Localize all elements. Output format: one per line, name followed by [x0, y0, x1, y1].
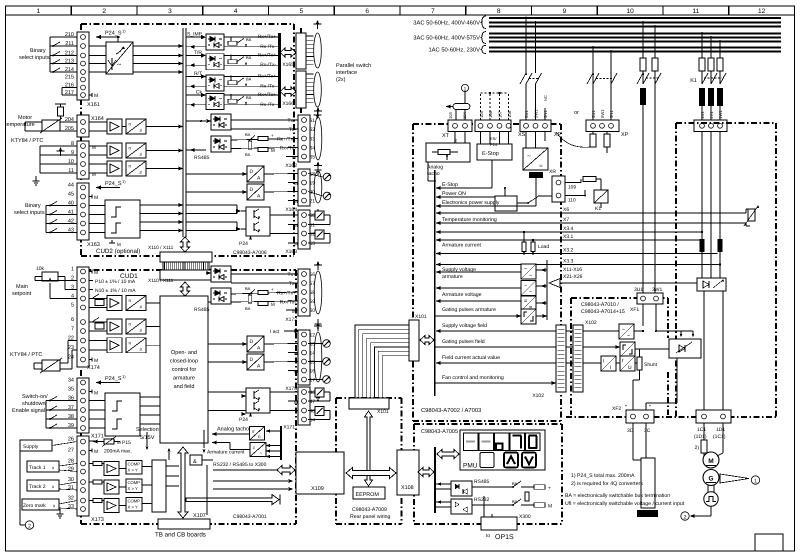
svg-text:M: M: [94, 449, 98, 455]
svg-text:106: 106: [488, 110, 493, 118]
svg-text:104: 104: [462, 112, 467, 119]
svg-text:temperature: temperature: [5, 122, 35, 128]
svg-text:Binary: Binary: [30, 48, 46, 54]
svg-text:U: U: [628, 365, 632, 371]
svg-text:1W1: 1W1: [718, 110, 723, 119]
svg-text:32: 32: [68, 496, 74, 502]
svg-text:5W1: 5W1: [534, 109, 539, 118]
svg-text:X172: X172: [285, 317, 297, 323]
svg-text:BA: BA: [245, 306, 251, 311]
svg-text:Electronics power supply: Electronics power supply: [442, 200, 500, 206]
svg-text:6: 6: [71, 317, 74, 323]
svg-text:2: 2: [102, 8, 106, 15]
svg-text:1AC 50-60Hz, 230V: 1AC 50-60Hz, 230V: [428, 47, 480, 54]
svg-text:48: 48: [310, 408, 316, 414]
svg-text:ES/: ES/: [490, 136, 497, 141]
svg-text:Tx-: Tx-: [289, 281, 297, 287]
svg-text:5/15V: 5/15V: [140, 435, 155, 441]
svg-text:Rx+/Tx+: Rx+/Tx+: [258, 74, 276, 80]
svg-text:C98043-A7014+15: C98043-A7014+15: [581, 309, 625, 315]
svg-text:X108: X108: [401, 485, 414, 491]
svg-text:X > Y: X > Y: [128, 505, 138, 510]
svg-text:XF1: XF1: [630, 307, 639, 313]
svg-text:M: M: [294, 351, 298, 356]
svg-text:P24_S: P24_S: [105, 376, 122, 382]
svg-text:Load: Load: [538, 244, 549, 250]
svg-text:(1C1): (1C1): [713, 434, 726, 440]
svg-text:X110 / X111: X110 / X111: [148, 245, 174, 251]
svg-text:interface: interface: [336, 70, 357, 76]
svg-text:›: ›: [52, 466, 54, 472]
svg-text:Power ON: Power ON: [442, 191, 466, 197]
svg-text:X101: X101: [415, 314, 427, 320]
svg-text:X6: X6: [563, 207, 569, 213]
svg-text:Main: Main: [16, 284, 28, 290]
svg-text:BA: BA: [246, 37, 252, 42]
svg-text:or: or: [574, 110, 579, 116]
svg-text:Tx+: Tx+: [288, 118, 297, 124]
svg-text:X110 / X111: X110 / X111: [148, 278, 174, 284]
svg-text:P10 ± 1% / 10 mA: P10 ± 1% / 10 mA: [95, 279, 136, 285]
svg-text:X165: X165: [282, 62, 294, 68]
svg-text:35: 35: [68, 387, 74, 393]
svg-text:E-Stop: E-Stop: [442, 182, 458, 188]
svg-text:Rx+/Tx+: Rx+/Tx+: [277, 137, 296, 143]
svg-text:XP: XP: [621, 132, 629, 138]
svg-text:*: *: [649, 404, 651, 410]
svg-text:4: 4: [234, 8, 238, 15]
svg-text:Rx+/Tx+: Rx+/Tx+: [258, 34, 276, 40]
svg-text:C98043-A7006: C98043-A7006: [233, 250, 267, 256]
svg-text:XR: XR: [549, 169, 556, 175]
svg-text:53: 53: [310, 241, 316, 247]
svg-text:select inputs: select inputs: [19, 55, 50, 61]
svg-text:1C1: 1C1: [697, 427, 706, 433]
svg-text:I: I: [610, 365, 611, 371]
svg-text:2: 2: [684, 515, 687, 521]
svg-text:BA: BA: [246, 55, 252, 60]
svg-text:3W1: 3W1: [652, 287, 663, 293]
svg-text:COMP: COMP: [128, 499, 141, 504]
svg-text:107: 107: [498, 110, 503, 118]
svg-text:61: 61: [310, 118, 316, 124]
svg-text:1U1: 1U1: [700, 111, 705, 119]
svg-text:BA = electronically switchable: BA = electronically switchable bus termi…: [565, 493, 670, 499]
svg-text:BA: BA: [246, 76, 252, 81]
svg-text:Fan control and monitoring: Fan control and monitoring: [442, 375, 504, 381]
svg-text:X171: X171: [283, 425, 295, 431]
svg-text:Rx-/Tx-: Rx-/Tx-: [280, 146, 297, 152]
svg-text:(2x): (2x): [336, 77, 346, 83]
svg-text:X171: X171: [91, 434, 104, 440]
svg-text:103: 103: [448, 112, 453, 119]
svg-text:Gating pulses field: Gating pulses field: [442, 339, 485, 345]
svg-text:50: 50: [310, 213, 316, 219]
svg-text:X102: X102: [585, 320, 597, 326]
svg-text:X3.3: X3.3: [563, 259, 574, 265]
svg-text:X102: X102: [532, 393, 544, 399]
svg-text:M: M: [271, 302, 275, 307]
svg-text:+: +: [271, 287, 274, 292]
svg-text:X7: X7: [563, 217, 569, 223]
svg-text:3C: 3C: [644, 428, 651, 434]
svg-text:Rx-/Tx-: Rx-/Tx-: [260, 44, 276, 50]
svg-text:to: to: [486, 533, 490, 539]
svg-text:Tx+: Tx+: [288, 272, 297, 278]
svg-text:Armature voltage: Armature voltage: [442, 292, 482, 298]
svg-text:KTY84 / PTC: KTY84 / PTC: [10, 352, 42, 358]
svg-text:closed-loop: closed-loop: [170, 359, 198, 365]
svg-text:3: 3: [168, 8, 172, 15]
svg-text:≡: ≡: [253, 445, 256, 450]
svg-text:1: 1: [71, 267, 74, 273]
svg-text:12: 12: [310, 332, 316, 338]
svg-text:C98043-A7009: C98043-A7009: [352, 507, 387, 513]
svg-text:~: ~: [524, 267, 527, 273]
svg-text:17: 17: [310, 377, 316, 383]
svg-text:~: ~: [260, 451, 263, 456]
svg-text:armature: armature: [442, 274, 463, 280]
svg-text:1V1: 1V1: [709, 111, 714, 119]
svg-text:3AC 50-60Hz, 400V-460V: 3AC 50-60Hz, 400V-460V: [413, 19, 480, 26]
svg-text:TB and CB boards: TB and CB boards: [155, 532, 206, 539]
svg-text:M: M: [292, 155, 296, 160]
svg-text:RS485: RS485: [194, 307, 210, 313]
svg-text:65: 65: [310, 154, 316, 160]
svg-text:27: 27: [68, 448, 74, 454]
svg-text:X107: X107: [193, 513, 206, 519]
svg-text:Rx-/Tx-: Rx-/Tx-: [260, 62, 276, 68]
svg-text:46: 46: [310, 390, 316, 396]
svg-text:1: 1: [37, 8, 41, 15]
svg-text:BA: BA: [246, 95, 252, 100]
svg-text:›: ›: [52, 485, 54, 491]
svg-text:60: 60: [310, 308, 316, 314]
svg-text:tacho: tacho: [427, 171, 440, 177]
svg-text:K1: K1: [595, 206, 601, 212]
svg-text:Enable signal: Enable signal: [12, 408, 45, 414]
svg-text:X300: X300: [519, 514, 531, 520]
svg-text:Gating pulses armature: Gating pulses armature: [442, 307, 496, 313]
svg-text:Supply voltage field: Supply voltage field: [442, 323, 487, 329]
svg-text:Rx-/Tx-: Rx-/Tx-: [260, 83, 276, 89]
svg-text:N10 ± 1% / 10 mA: N10 ± 1% / 10 mA: [95, 288, 136, 294]
svg-text:10k: 10k: [36, 266, 45, 272]
svg-text:KTY84 / PTC: KTY84 / PTC: [11, 138, 43, 144]
svg-text:X21-X26: X21-X26: [563, 274, 583, 280]
svg-text:X175: X175: [285, 386, 297, 392]
svg-text:Track 2: Track 2: [29, 484, 46, 490]
svg-text:M: M: [294, 181, 298, 186]
svg-text:RS232 / RS485 to X300: RS232 / RS485 to X300: [213, 462, 267, 468]
svg-text:Parallel switch: Parallel switch: [336, 63, 371, 69]
svg-text:24: 24: [68, 355, 74, 361]
svg-text:XT: XT: [442, 133, 450, 139]
svg-text:X164: X164: [285, 207, 297, 213]
svg-text:X101: X101: [377, 409, 389, 415]
svg-text:X163: X163: [87, 242, 100, 248]
svg-text:BA: BA: [245, 132, 251, 137]
svg-text:X164: X164: [91, 116, 104, 122]
svg-text:29: 29: [68, 467, 74, 473]
svg-text:X3.2: X3.2: [563, 248, 574, 254]
svg-text:+: +: [271, 133, 274, 138]
svg-text:~: ~: [527, 153, 531, 160]
svg-text:1: 1: [754, 479, 757, 485]
svg-text:Rx+/Tx+: Rx+/Tx+: [258, 92, 276, 98]
svg-text:45: 45: [68, 192, 74, 198]
svg-text:2: 2: [28, 524, 31, 530]
svg-text:M: M: [94, 358, 98, 364]
svg-text:M: M: [294, 400, 298, 405]
svg-text:M: M: [294, 242, 298, 247]
svg-text:X3.1: X3.1: [563, 234, 574, 240]
svg-text:10: 10: [627, 8, 635, 15]
svg-text:Ufl = electronically switchabl: Ufl = electronically switchable voltage …: [565, 501, 685, 507]
svg-text:X163: X163: [285, 249, 297, 255]
svg-text:51: 51: [310, 222, 316, 228]
svg-text:~: ~: [622, 327, 625, 333]
svg-text:OP1S: OP1S: [495, 534, 514, 541]
svg-text:BA: BA: [245, 152, 251, 157]
svg-text:2): 2): [695, 445, 700, 451]
svg-text:*: *: [625, 404, 627, 410]
svg-text:=: =: [539, 163, 543, 170]
svg-text:P24: P24: [490, 142, 498, 147]
svg-text:Temperature monitoring: Temperature monitoring: [442, 217, 497, 223]
svg-text:C98043-A7010 /: C98043-A7010 /: [581, 302, 619, 308]
svg-text:Analog: Analog: [427, 165, 443, 171]
svg-text:X109: X109: [311, 486, 324, 492]
svg-text:Shunt: Shunt: [644, 362, 658, 368]
svg-text:Motor: Motor: [18, 115, 32, 121]
svg-text:control for: control for: [172, 367, 197, 373]
svg-text:~: ~: [529, 290, 532, 296]
svg-text:RS485: RS485: [194, 155, 210, 161]
svg-text:M: M: [94, 391, 98, 397]
svg-text:Binary: Binary: [25, 203, 41, 209]
svg-text:M: M: [294, 223, 298, 228]
svg-text:Open- and: Open- and: [171, 350, 197, 356]
svg-text:9: 9: [563, 8, 567, 15]
svg-text:D: D: [250, 339, 254, 345]
svg-text:Field current actual value: Field current actual value: [442, 355, 500, 361]
svg-text:Armature current: Armature current: [207, 450, 245, 456]
svg-text:5U1: 5U1: [591, 110, 596, 118]
svg-text:PMU: PMU: [463, 463, 478, 470]
svg-text:RS485: RS485: [474, 479, 490, 485]
svg-text:X174: X174: [87, 365, 100, 371]
svg-text:44: 44: [68, 183, 74, 189]
svg-text:3U1: 3U1: [634, 287, 643, 293]
svg-text:D: D: [250, 187, 254, 193]
svg-text:X166: X166: [282, 101, 294, 107]
svg-text:NC: NC: [543, 95, 548, 101]
svg-text:M: M: [294, 369, 298, 374]
svg-text:5: 5: [71, 303, 74, 309]
svg-text:EEPROM: EEPROM: [356, 492, 380, 498]
svg-text:Rear panel wiring: Rear panel wiring: [350, 514, 390, 520]
svg-text:P24_S: P24_S: [105, 181, 122, 187]
svg-text:P15: P15: [122, 440, 131, 446]
svg-text:M: M: [294, 199, 298, 204]
svg-text:Tx-: Tx-: [289, 127, 297, 133]
svg-text:3AC 50-60Hz, 400V-575V: 3AC 50-60Hz, 400V-575V: [413, 35, 480, 42]
svg-text:~: ~: [524, 283, 527, 289]
svg-text:X > Y: X > Y: [128, 468, 138, 473]
svg-text:setpoint: setpoint: [12, 291, 32, 297]
svg-text:X161: X161: [87, 102, 100, 108]
svg-text:BA: BA: [245, 286, 251, 291]
svg-text:8: 8: [497, 8, 501, 15]
svg-text:108: 108: [507, 110, 512, 118]
svg-text:X > Y: X > Y: [128, 486, 138, 491]
svg-text:M: M: [548, 504, 552, 510]
svg-text:Armature current: Armature current: [442, 243, 481, 249]
svg-text:CUD2 (optional): CUD2 (optional): [96, 248, 140, 255]
svg-text:M: M: [94, 270, 98, 276]
svg-text:Supply: Supply: [23, 444, 39, 450]
svg-text:+: +: [548, 486, 551, 492]
svg-text:=: =: [524, 299, 527, 305]
svg-text:110: 110: [568, 198, 576, 204]
svg-text:200mA max.: 200mA max.: [104, 449, 132, 455]
svg-text:›: ›: [53, 504, 55, 510]
svg-text:Zero mark: Zero mark: [23, 503, 46, 509]
svg-text:215: 215: [65, 75, 74, 81]
svg-text:armature: armature: [173, 376, 195, 382]
svg-text:1D1: 1D1: [716, 427, 725, 433]
svg-text:&: &: [193, 459, 197, 465]
svg-text:5N1: 5N1: [543, 110, 548, 118]
svg-text:X3.4: X3.4: [563, 226, 574, 232]
svg-text:G: G: [708, 476, 713, 483]
svg-text:11: 11: [693, 8, 700, 15]
svg-text:~: ~: [627, 334, 630, 340]
svg-text:~: ~: [529, 273, 532, 279]
svg-text:and field: and field: [174, 384, 195, 390]
svg-text:XF2: XF2: [612, 406, 621, 412]
svg-text:C98043-A7005: C98043-A7005: [421, 429, 458, 435]
svg-text:shutdown: shutdown: [22, 401, 46, 407]
svg-text:105: 105: [479, 110, 484, 118]
svg-text:54: 54: [310, 417, 316, 423]
svg-text:D: D: [250, 357, 254, 363]
svg-text:6: 6: [365, 8, 369, 15]
svg-text:K1: K1: [690, 78, 697, 84]
svg-text:Switch-on/: Switch-on/: [22, 394, 48, 400]
svg-text:P24: P24: [239, 417, 248, 423]
svg-text:X162: X162: [285, 163, 297, 169]
svg-text:M: M: [117, 242, 121, 247]
svg-text:2) is required for 4Q converte: 2) is required for 4Q converters: [571, 481, 643, 487]
svg-text:Rx-/Tx-: Rx-/Tx-: [280, 300, 297, 306]
svg-text:47: 47: [310, 399, 316, 405]
svg-text:M: M: [117, 440, 121, 445]
svg-text:21: 21: [310, 198, 316, 204]
svg-text:I act: I act: [270, 329, 280, 335]
svg-text:I: I: [603, 359, 604, 365]
svg-text:C98043-A7001: C98043-A7001: [233, 514, 267, 520]
svg-text:COMP: COMP: [128, 462, 141, 467]
svg-text:M: M: [94, 93, 98, 99]
svg-text:5: 5: [300, 8, 304, 15]
svg-text:Analog tacho: Analog tacho: [217, 427, 249, 433]
svg-text:E-Stop: E-Stop: [482, 151, 499, 157]
svg-text:5W1: 5W1: [600, 109, 605, 118]
svg-text:P24: P24: [239, 241, 248, 247]
svg-text:M: M: [708, 458, 713, 465]
svg-text:31: 31: [68, 485, 74, 491]
svg-text:∾: ∾: [117, 62, 121, 68]
svg-text:XS: XS: [518, 132, 526, 138]
svg-text:RS232: RS232: [474, 497, 490, 503]
svg-text:52: 52: [310, 231, 316, 237]
svg-text:Track 1: Track 1: [29, 465, 46, 471]
svg-text:34: 34: [68, 378, 74, 384]
svg-text:12: 12: [758, 8, 766, 15]
svg-text:X11-X16: X11-X16: [563, 267, 582, 273]
svg-text:COMP: COMP: [128, 480, 141, 485]
svg-text:5N1: 5N1: [609, 110, 614, 118]
svg-text:109: 109: [568, 185, 576, 191]
svg-text:7: 7: [431, 8, 435, 15]
svg-text:C98043-A7002 / A7003: C98043-A7002 / A7003: [421, 407, 481, 414]
svg-text:Rx+/Tx+: Rx+/Tx+: [277, 291, 296, 297]
svg-text:(1D1): (1D1): [694, 434, 707, 440]
svg-text:M: M: [271, 148, 275, 153]
svg-text:P24_S: P24_S: [105, 31, 122, 37]
svg-text:Rx+/Tx+: Rx+/Tx+: [258, 52, 276, 58]
svg-text:33: 33: [68, 504, 74, 510]
svg-text:select inputs: select inputs: [14, 210, 45, 216]
svg-text:1) P24_S total max. 200mA: 1) P24_S total max. 200mA: [571, 473, 635, 479]
svg-text:M: M: [94, 195, 98, 201]
svg-text:D: D: [250, 169, 254, 175]
svg-text:Rx-/Tx-: Rx-/Tx-: [260, 102, 276, 108]
svg-text:5U1: 5U1: [524, 110, 529, 118]
svg-text:X173: X173: [91, 517, 104, 523]
svg-text:56: 56: [310, 272, 316, 278]
svg-text:7: 7: [71, 326, 74, 332]
svg-text:M: M: [292, 309, 296, 314]
